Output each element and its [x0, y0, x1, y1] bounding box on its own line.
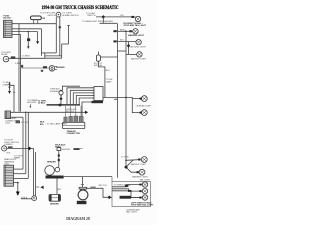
stub on drop wire [36, 186, 40, 188]
long wire from C150 [11, 111, 86, 113]
harness staircase wire 2 [70, 90, 92, 104]
right trunk V117.5 [117, 24, 119, 178]
wire from CHMSL [7, 147, 34, 149]
connector C300 (bottom-left hatched box) [4, 165, 14, 186]
loop left vertical [41, 29, 43, 56]
lamp C stem [60, 95, 62, 105]
license lamp circle 5 [141, 96, 147, 102]
wire bar to circle 11 [131, 197, 142, 199]
riser wires bus to comb [66, 106, 82, 117]
lamp circle 11 [142, 195, 147, 200]
lower wire from C150 [11, 116, 24, 118]
loop bottom outer [42, 52, 57, 54]
svg-text:LICENSE LIGHT: LICENSE LIGHT [136, 106, 152, 108]
wire from C100 pin B [12, 28, 42, 30]
flasher right dashes [55, 65, 57, 67]
tail lamp circle 3 [136, 40, 141, 45]
wire label tag on horn wire [11, 56, 16, 59]
dark dash terminal [74, 148, 80, 150]
comb connector (mid) [63, 116, 85, 129]
splice bead on right leg [59, 26, 61, 28]
wire drop to ground G1 [37, 32, 39, 42]
svg-text:SWITCH: SWITCH [47, 15, 56, 17]
horn symbol circle A [3, 56, 9, 62]
harness staircase wire 1 [67, 88, 92, 105]
ground drop [17, 183, 19, 192]
terminal blob 7 [138, 159, 140, 161]
tiny arrow below label [29, 104, 31, 107]
wire from C100 pin C [12, 31, 38, 33]
svg-text:SENDER: SENDER [47, 161, 56, 163]
svg-text:MARKER LIGHT: MARKER LIGHT [132, 176, 148, 179]
tick on branch wire [13, 91, 15, 93]
svg-text:TAIL LIGHT: TAIL LIGHT [126, 211, 138, 214]
loop right vertical [61, 44, 63, 58]
stop/turn lamp circle 1 [131, 16, 140, 22]
wire to stop/turn lamp [96, 16, 135, 18]
branch to marker lamp 8 [127, 168, 139, 172]
svg-text:DIAGRAM 28: DIAGRAM 28 [66, 216, 90, 221]
svg-text:SIGNAL SWITCH: SIGNAL SWITCH [62, 14, 79, 17]
svg-text:MARKER LIGHT: MARKER LIGHT [128, 34, 145, 37]
svg-text:GRY 120: GRY 120 [98, 185, 107, 187]
wire to marker lamp [118, 30, 133, 32]
dark bar in box [120, 196, 131, 199]
svg-text:CB: CB [42, 18, 46, 20]
splice drop S1 [102, 17, 104, 23]
svg-text:BLOCK: BLOCK [4, 18, 12, 20]
terminal blob 9 [139, 184, 141, 186]
wire fuse to right trunk [100, 56, 117, 58]
svg-text:RELAY: RELAY [1, 53, 8, 56]
ground arrow G1 [36, 41, 39, 44]
tick under lamp C [60, 95, 62, 97]
tag on trunk 2 [113, 40, 116, 42]
svg-text:1.5 BRN: 1.5 BRN [22, 56, 30, 58]
license lamp feed upper [132, 98, 141, 100]
marker lamp circle 2 [133, 29, 138, 34]
arrow terminal left [40, 186, 43, 189]
tag boxes top of lower trunk [16, 120, 21, 123]
splice square [27, 38, 30, 41]
tag on motor wire [91, 187, 96, 189]
indicator lamp circle C [59, 91, 63, 95]
tick on V68.5 [67, 24, 70, 26]
cylinder component B8 [49, 194, 61, 201]
ignition switch circle (top center) [56, 12, 61, 17]
svg-text:BLK: BLK [120, 40, 125, 42]
splice diamond S5 [108, 196, 112, 200]
feed elbow into lamp C [62, 86, 80, 90]
breaker leg 1 [33, 20, 35, 24]
backup lamp circle 7 [141, 157, 147, 163]
arrow terminal on long wire [85, 111, 88, 114]
junction dot at trunk [125, 97, 127, 99]
schematic drawing group [1, 5, 154, 221]
wire to backup lamp 4 [126, 53, 137, 55]
svg-text:GRY: GRY [57, 189, 62, 191]
splice diamond S6 [124, 165, 128, 169]
drop wire from C200 bar to pigtail [82, 102, 92, 116]
bus bar (double dark horizontal) [47, 103, 81, 105]
terminal blob 5 [140, 98, 142, 100]
CHMSL circle E [2, 146, 7, 151]
svg-text:TAIL LIGHT: TAIL LIGHT [140, 179, 152, 182]
wire trunk V19 [18, 24, 20, 112]
svg-text:BACKUP LIGHT: BACKUP LIGHT [131, 163, 147, 166]
right trunk V126 [125, 31, 127, 167]
wire lower feed [100, 22, 118, 24]
svg-text:LT GRN: LT GRN [121, 157, 129, 159]
svg-text:SWITCH: SWITCH [94, 65, 103, 67]
loop inner left stub [44, 53, 46, 58]
ground arrow G2 [16, 192, 20, 197]
drop to splice square [27, 32, 29, 39]
connector blobs in box [125, 185, 128, 187]
B7 stem down [58, 151, 60, 168]
wire fuse top stub [97, 52, 99, 56]
junction dot w3 [28, 31, 30, 33]
wire C200 to trunk [103, 97, 126, 99]
license lamp branch elbow [126, 98, 141, 113]
svg-text:SENDER: SENDER [50, 203, 59, 205]
flasher left dots [43, 66, 47, 68]
branch wire from squiggle [10, 85, 15, 112]
label bar under circles [46, 176, 64, 179]
label under motor [77, 201, 87, 204]
connector C150 small (left) [5, 111, 11, 119]
wire fuse down to connector row [98, 61, 105, 97]
fuel pump motor [78, 187, 88, 200]
nub on lamp C [60, 90, 62, 91]
C300 wire 2 [14, 173, 26, 175]
arrow terminal below square [27, 46, 30, 49]
svg-text:LAMP: LAMP [106, 80, 112, 83]
branch up to backup wire [127, 160, 134, 167]
wire from C100 pin A [12, 23, 56, 25]
harness staircase wire 3 [73, 93, 92, 105]
splice diamond S3 [59, 97, 62, 100]
loop bottom inner [45, 55, 62, 57]
splice square on stem [58, 154, 60, 156]
svg-text:GROUND: GROUND [27, 102, 37, 104]
svg-text:CONNECTOR: CONNECTOR [67, 133, 81, 135]
fuel sender big circle [45, 166, 55, 176]
fuel pump feed drop [81, 177, 83, 188]
drop from splice square [27, 41, 29, 46]
box staircase wire 3 [112, 191, 142, 198]
box staircase wire 1 [112, 185, 142, 187]
branch vertical to lamp 4 [128, 42, 130, 55]
svg-text:14 BLK: 14 BLK [38, 102, 46, 105]
key symbol [21, 196, 37, 201]
svg-text:HAZARD: HAZARD [56, 66, 65, 69]
fuel sender small circle [55, 167, 60, 172]
wire from label bar to box [64, 176, 112, 178]
svg-text:STOP AND TAIL LIGHT: STOP AND TAIL LIGHT [124, 24, 147, 27]
svg-text:FLASHER: FLASHER [50, 90, 60, 93]
svg-text:GROUND LIGHT: GROUND LIGHT [130, 47, 147, 49]
lamp circle 9 [142, 182, 147, 187]
svg-text:SWITCH: SWITCH [87, 15, 96, 17]
big right box [112, 182, 151, 207]
ground arrow under squiggle [8, 91, 11, 94]
svg-text:2 BLK: 2 BLK [15, 63, 21, 65]
tick on feed drop [81, 183, 84, 185]
terminal blob 11 [139, 197, 141, 199]
wire ignition right leg [59, 17, 61, 56]
harness staircase wire 4 [76, 95, 92, 104]
wire ignition left leg [55, 17, 57, 53]
terminal blob 6 [140, 112, 142, 114]
B7 side stub [62, 148, 70, 150]
flasher circle B [49, 66, 55, 72]
svg-text:STOP AND TAIL LIGHT: STOP AND TAIL LIGHT [131, 204, 154, 207]
license lamp circle 6 [141, 110, 147, 116]
backup lamp circle 4 [137, 52, 142, 57]
svg-text:BLK: BLK [7, 152, 12, 154]
cross stub between trunks [118, 50, 127, 52]
harness staircase wire 5 [79, 98, 92, 104]
lamp circle 10 [142, 188, 147, 193]
svg-text:BLK: BLK [106, 70, 111, 72]
C300 wire 1 [14, 168, 24, 170]
svg-text:TO HEADLIGHT SWITCH: TO HEADLIGHT SWITCH [82, 20, 107, 23]
tick on right trunk [114, 98, 117, 100]
terminal blob 8 [137, 171, 139, 173]
circuit breaker pill [31, 16, 42, 20]
resistor squiggle (left mid) [9, 82, 11, 91]
svg-text:18 BRN: 18 BRN [106, 21, 114, 23]
box staircase wire 2 [112, 189, 142, 191]
svg-text:BRN: BRN [120, 29, 125, 31]
lower trunk V23 [22, 117, 24, 169]
wire from motor [87, 188, 112, 197]
marker lamp circle 8 [139, 169, 145, 175]
wire tag on CHMSL wire [8, 146, 13, 148]
terminal blob 10 [139, 190, 141, 192]
svg-text:C100: C100 [5, 123, 11, 125]
drop wires to key [33, 148, 35, 196]
tag on trunk 1 [113, 30, 116, 32]
junction dots [17, 182, 19, 184]
label under connector C200 [92, 101, 104, 103]
svg-text:BACKUP LIGHT: BACKUP LIGHT [131, 58, 147, 61]
connector block C200 [92, 87, 103, 101]
wire to tail lamp 3 [118, 41, 136, 43]
wire from horn to loop [9, 57, 45, 59]
small box B7 [57, 148, 61, 151]
junction dot top of trunk [125, 30, 127, 32]
fuse F1 (mid top) [96, 55, 100, 61]
page background [0, 0, 157, 225]
lower trunk V25.8 [25, 112, 27, 173]
tiny cross tick [80, 148, 83, 150]
lower trunk V28.3 [27, 112, 29, 178]
splice diamond S1 [102, 15, 106, 19]
svg-text:1994-98 GM TRUCK CHASSIS SCHEM: 1994-98 GM TRUCK CHASSIS SCHEMATIC [42, 5, 119, 11]
stem down from bar [56, 179, 58, 195]
splice diamond S2 [127, 44, 130, 48]
svg-text:CHIME: CHIME [3, 84, 10, 86]
wire stub V68.5 [68, 25, 70, 44]
wire trunk V20.6 [20, 35, 22, 112]
loop right top elbow [62, 43, 69, 45]
connector C100 (top-left hatched box) [4, 20, 13, 37]
wire from C100 pin D [12, 34, 21, 36]
backup lamp feed wire [126, 159, 138, 162]
splice diamond S4 [28, 147, 32, 151]
C300 wire 3 [14, 177, 29, 179]
C300 wire 4 [14, 182, 18, 184]
breaker leg 2 [37, 20, 39, 24]
